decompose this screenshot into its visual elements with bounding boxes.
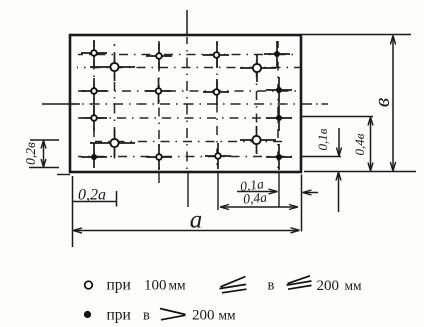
solid crosshairs at points [81, 40, 292, 170]
bottom edge overhang [57, 174, 70, 176]
svg-text:200: 200 [192, 308, 215, 324]
horizontal main center line right of plate [302, 103, 328, 105]
row center line y=91 [78, 90, 298, 92]
svg-text:0,2в: 0,2в [23, 142, 38, 165]
top extension line [302, 34, 411, 36]
dimension line 0.2b [43, 141, 45, 167]
row center line y=141.5 [95, 141, 285, 143]
horizontal main center line inside plate [72, 103, 300, 105]
extension line 0.4b [302, 116, 373, 118]
extension below plate x=188 [187, 173, 189, 207]
row center line y=67.5 [77, 67, 300, 69]
extension below plate x=159 [158, 173, 160, 183]
row center line y=54.5 [78, 54, 295, 56]
column center line x=256.5 [256, 55, 258, 152]
svg-text:в: в [143, 308, 150, 324]
dimension line 0.1b upper [338, 128, 340, 155]
dimension line 0.4a [221, 206, 297, 208]
extension line 0.1b [302, 156, 341, 158]
svg-text:a: a [190, 207, 203, 234]
horizontal main center line left of plate [42, 103, 80, 105]
column center line x=217 [216, 41, 218, 170]
svg-text:0,2a: 0,2a [78, 187, 106, 204]
extension below plate x=218 [217, 173, 219, 210]
dimension line 0.1b lower [338, 173, 340, 212]
svg-text:в: в [268, 278, 275, 294]
svg-text:100: 100 [144, 278, 167, 294]
column center line x=114.5 [114, 44, 116, 160]
svg-text:при: при [107, 307, 131, 324]
column center line x=159 [158, 41, 160, 170]
plate outline [70, 35, 301, 172]
svg-text:200: 200 [317, 278, 340, 294]
0.1a outside arrow [304, 192, 319, 194]
svg-text:в: в [369, 97, 394, 107]
less-equal symbol 2 [287, 276, 312, 289]
left extension line [72, 176, 74, 247]
dimension line a [74, 230, 299, 232]
open point circles (large) [110, 63, 261, 147]
greater symbol [160, 309, 186, 320]
svg-text:при: при [107, 277, 131, 294]
bottom extension line [304, 171, 416, 173]
svg-text:мм: мм [219, 308, 237, 323]
legend open circle [85, 281, 93, 289]
0.2a underline [73, 201, 117, 203]
dimension line b [392, 37, 394, 170]
legend filled circle [84, 311, 91, 318]
svg-text:0,4в: 0,4в [352, 133, 367, 155]
less-equal symbol 1 [220, 277, 247, 293]
right extension line [301, 175, 303, 232]
open point circles (small) [91, 50, 221, 160]
dimension line 0.1a [237, 191, 276, 193]
extension below plate x=279 [278, 173, 280, 207]
0.2a tick [116, 191, 118, 207]
svg-text:0,4a: 0,4a [243, 190, 268, 207]
svg-text:мм: мм [345, 278, 363, 293]
column center line x=278 [277, 41, 279, 170]
vertical main center line above plate [186, 10, 188, 34]
vertical main center line inside plate [186, 37, 188, 170]
extension lines [30, 139, 59, 141]
svg-text:мм: мм [169, 278, 187, 293]
row center line y=156.5 [78, 156, 296, 158]
column center line x=94 [93, 41, 95, 166]
row center line y=118 [78, 117, 296, 119]
svg-text:0,1в: 0,1в [315, 128, 330, 150]
dimension line 0.4b [370, 118, 372, 171]
filled points [91, 51, 282, 160]
